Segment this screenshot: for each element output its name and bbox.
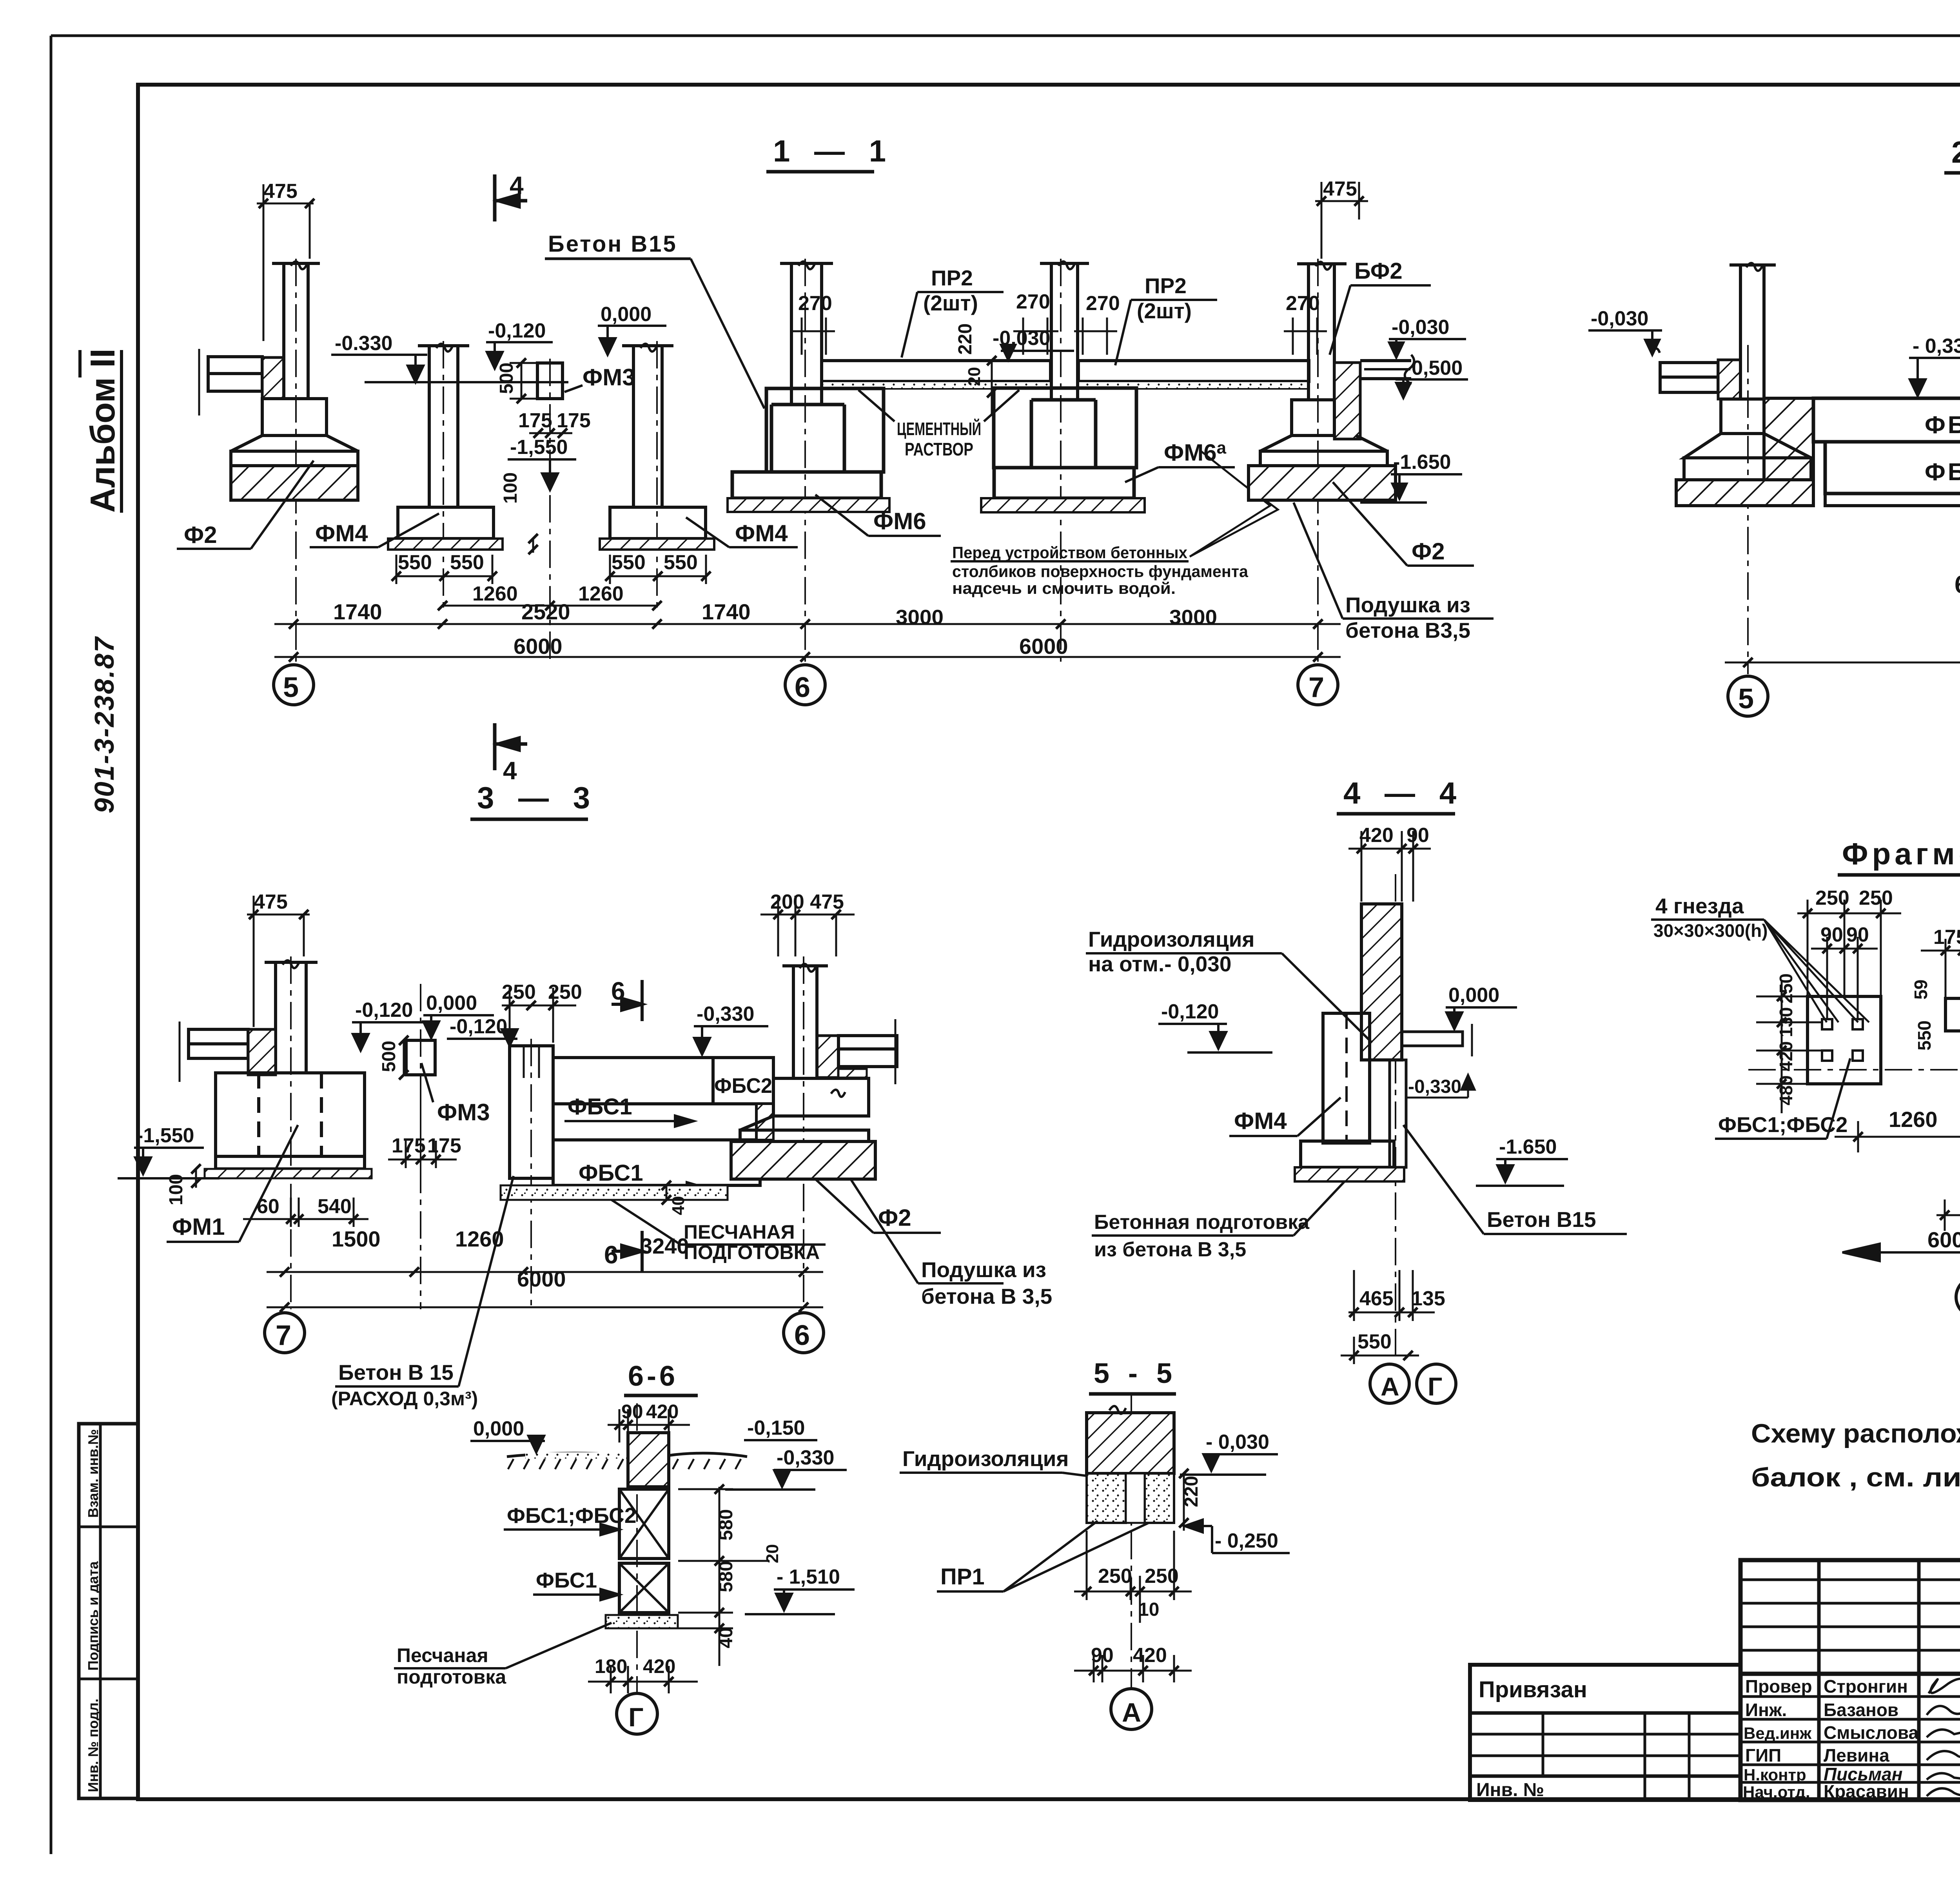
svg-text:59: 59 <box>1911 980 1931 1000</box>
circles A G 4-4 <box>1370 1364 1456 1403</box>
svg-text:270: 270 <box>1016 290 1050 313</box>
svg-text:Подпись и дата: Подпись и дата <box>85 1561 101 1671</box>
pad FM4 #1 <box>388 539 503 550</box>
svg-text:А: А <box>1122 1698 1141 1727</box>
hatched pad F2 axis7 <box>1249 466 1396 500</box>
svg-text:(2шт): (2шт) <box>1137 299 1192 323</box>
pad FM6a <box>981 498 1145 512</box>
svg-text:Провер: Провер <box>1745 1676 1812 1697</box>
svg-text:270: 270 <box>1086 292 1120 315</box>
pad FM6 <box>728 498 889 512</box>
svg-text:550: 550 <box>398 551 432 574</box>
foundation FM6a <box>994 388 1136 498</box>
thin hatch under slab 3-3 <box>838 1069 867 1078</box>
wall lower strip <box>1390 1060 1406 1167</box>
svg-text:270: 270 <box>798 292 832 315</box>
svg-text:1500: 1500 <box>332 1227 381 1251</box>
svg-text:7: 7 <box>1308 672 1324 703</box>
svg-text:ФМ4: ФМ4 <box>315 520 368 546</box>
svg-text:Подушка из: Подушка из <box>921 1257 1046 1282</box>
left foundation trapezoid <box>1684 399 1811 458</box>
beam stub right of axis7 <box>1360 355 1414 385</box>
svg-text:ПЕСЧАНАЯ: ПЕСЧАНАЯ <box>684 1221 795 1243</box>
svg-text:Вед.инж: Вед.инж <box>1744 1724 1812 1742</box>
svg-text:0,000: 0,000 <box>426 992 477 1014</box>
column FM6a axis <box>1040 261 1089 400</box>
svg-text:6000: 6000 <box>514 634 563 659</box>
foundation 4-4 <box>1301 1141 1394 1167</box>
FBS block 2 with X <box>619 1563 669 1613</box>
svg-text:6: 6 <box>604 1241 618 1269</box>
right floor slab 3-3 <box>838 1019 897 1084</box>
svg-text:Стронгин: Стронгин <box>1824 1676 1908 1697</box>
foundation FM4 #1 <box>398 507 494 539</box>
FBS1 row1 <box>553 1058 713 1104</box>
bottom thin slab <box>1825 494 1960 506</box>
grid circles 7 6 <box>265 1313 824 1353</box>
FBS block 1 with X <box>619 1489 669 1559</box>
svg-text:ФБС2: ФБС2 <box>714 1074 772 1098</box>
svg-text:420: 420 <box>646 1401 679 1423</box>
svg-text:-1.650: -1.650 <box>1393 451 1451 474</box>
hatched pad F2 axis5 <box>231 466 358 500</box>
svg-text:500: 500 <box>496 363 517 394</box>
svg-text:-0,030: -0,030 <box>1392 316 1449 339</box>
hatched wall bit 3-3 left <box>248 1029 276 1075</box>
hatched wall bit left <box>1718 360 1740 399</box>
svg-text:475: 475 <box>1323 178 1357 200</box>
svg-text:-0,330: -0,330 <box>777 1446 834 1469</box>
svg-text:ФМ6: ФМ6 <box>873 508 926 534</box>
svg-text:1740: 1740 <box>333 599 382 624</box>
base slab hatched 4-4 <box>1295 1167 1404 1181</box>
svg-text:бетона В3,5: бетона В3,5 <box>1345 618 1470 642</box>
svg-text:40: 40 <box>669 1196 688 1215</box>
svg-text:2520: 2520 <box>521 599 570 624</box>
svg-text:Ф2: Ф2 <box>878 1205 911 1231</box>
grid circles 5 6 7 <box>274 665 1338 705</box>
svg-text:Левина: Левина <box>1824 1745 1889 1766</box>
svg-text:ЦЕМЕНТНЫЙ: ЦЕМЕНТНЫЙ <box>897 419 981 439</box>
svg-text:250: 250 <box>1098 1565 1132 1588</box>
svg-text:5: 5 <box>283 672 299 703</box>
svg-text:-0.330: -0.330 <box>335 332 392 355</box>
svg-text:ПР1: ПР1 <box>940 1564 985 1590</box>
FBS2 row1 <box>713 1058 773 1104</box>
svg-text:Песчаная: Песчаная <box>397 1644 488 1666</box>
svg-text:3 — 3: 3 — 3 <box>477 780 598 815</box>
svg-text:Инв. № подл.: Инв. № подл. <box>85 1698 101 1792</box>
svg-text:475: 475 <box>254 891 288 913</box>
svg-text:Н.контр: Н.контр <box>1744 1766 1806 1784</box>
svg-text:-0,330: -0,330 <box>697 1003 754 1025</box>
svg-text:10: 10 <box>1138 1599 1159 1620</box>
svg-text:135: 135 <box>1411 1287 1445 1310</box>
svg-text:-1,550: -1,550 <box>136 1124 194 1147</box>
svg-text:столбиков поверхность фундамен: столбиков поверхность фундамента <box>952 562 1249 581</box>
svg-text:420: 420 <box>1359 824 1394 847</box>
svg-text:3000: 3000 <box>1169 606 1217 629</box>
column FM4 4-4 <box>1323 1013 1370 1143</box>
big block FM1 <box>216 1073 365 1169</box>
foundation FM6 <box>732 388 884 498</box>
beam strip PR2 left span <box>822 361 1309 381</box>
column axis7 <box>1297 262 1347 401</box>
svg-text:Бетон В 15: Бетон В 15 <box>338 1360 454 1384</box>
svg-text:Подушка из: Подушка из <box>1345 593 1470 617</box>
svg-text:Привязан: Привязан <box>1479 1677 1587 1702</box>
ground line <box>507 1453 747 1469</box>
trapezoid foundation F2 3-3 <box>740 1078 869 1141</box>
svg-text:Гидроизоляция: Гидроизоляция <box>1088 927 1254 951</box>
svg-text:0,000: 0,000 <box>473 1417 524 1440</box>
svg-text:540: 540 <box>318 1195 352 1218</box>
svg-text:1260: 1260 <box>472 582 518 605</box>
svg-text:-0,120: -0,120 <box>488 319 546 342</box>
sidebar doc number <box>89 636 120 813</box>
circles 6 7 plan <box>1956 1231 1960 1317</box>
svg-text:- 1,510: - 1,510 <box>777 1566 840 1588</box>
svg-text:901-3-238.87: 901-3-238.87 <box>89 636 120 813</box>
hatched wall 4-4 <box>1361 904 1402 1060</box>
svg-text:1740: 1740 <box>702 599 751 624</box>
svg-text:Ф2: Ф2 <box>184 522 217 548</box>
svg-text:-0,330: -0,330 <box>1408 1076 1461 1097</box>
mortar band with joint <box>1087 1473 1174 1523</box>
hatched pad F2 3-3 <box>731 1141 875 1179</box>
svg-text:250: 250 <box>502 981 536 1003</box>
svg-text:5 - 5: 5 - 5 <box>1094 1358 1178 1389</box>
svg-text:ПР2: ПР2 <box>931 266 973 290</box>
small pier near foundation 3-3 <box>757 1104 773 1140</box>
svg-text:550: 550 <box>664 551 698 574</box>
svg-text:580: 580 <box>716 1561 737 1592</box>
svg-text:БФ2: БФ2 <box>1354 258 1403 284</box>
axis G horizontal <box>1748 1069 1960 1071</box>
axis dash-dot lines <box>296 259 1318 662</box>
svg-text:-1.650: -1.650 <box>1499 1136 1557 1158</box>
svg-text:Перед устройством бетонных: Перед устройством бетонных <box>952 543 1188 562</box>
svg-text:6: 6 <box>794 1320 810 1351</box>
svg-text:7: 7 <box>276 1320 291 1351</box>
svg-text:175: 175 <box>518 409 552 432</box>
left rotated dims wall plan <box>1776 973 1796 1105</box>
outer border top <box>51 34 1960 37</box>
svg-text:Схему расположения фундамент: Схему расположения фундаментов, фундамен… <box>1751 1419 1960 1448</box>
svg-text:-0,030: -0,030 <box>1591 307 1648 330</box>
hatched pier right 3-3 <box>817 1036 838 1078</box>
sand strip 6-6 <box>606 1615 678 1628</box>
grid circles 5 4 <box>1728 676 1960 716</box>
pad FM4 #2 <box>600 539 714 550</box>
svg-text:- 0,250: - 0,250 <box>1215 1530 1278 1552</box>
svg-text:РАСТВОР: РАСТВОР <box>905 439 973 459</box>
svg-text:(РАСХОД 0,3м³): (РАСХОД 0,3м³) <box>331 1388 478 1410</box>
svg-text:465: 465 <box>1359 1287 1394 1310</box>
pier FM3 3-3 <box>406 1040 435 1075</box>
svg-text:Красавин: Красавин <box>1824 1781 1909 1802</box>
svg-text:ФМ1: ФМ1 <box>172 1214 225 1240</box>
svg-text:Г: Г <box>1428 1372 1442 1401</box>
thin pad FM1 <box>205 1169 372 1178</box>
svg-text:Бетонная подготовка: Бетонная подготовка <box>1094 1211 1310 1234</box>
svg-text:20: 20 <box>763 1544 782 1563</box>
ground dotted soil <box>525 1452 628 1459</box>
svg-text:(2шт): (2шт) <box>923 291 978 315</box>
svg-text:40: 40 <box>716 1628 737 1648</box>
hatched wall block at axis5 <box>262 357 284 399</box>
FBS row 1 <box>1813 398 1960 442</box>
cut mark 4 top <box>495 174 527 221</box>
svg-text:175: 175 <box>557 409 591 432</box>
svg-text:6000: 6000 <box>1019 634 1068 659</box>
svg-text:-0,150: -0,150 <box>747 1417 805 1439</box>
foundation F2 axis5 <box>231 399 358 466</box>
svg-text:- 0,030: - 0,030 <box>1206 1431 1269 1453</box>
svg-text:-0,120: -0,120 <box>355 999 413 1022</box>
svg-text:550: 550 <box>1357 1330 1392 1353</box>
hatched beam BF2 at axis7 <box>1334 363 1360 439</box>
svg-text:Бетон В15: Бетон В15 <box>1487 1207 1596 1232</box>
svg-text:3240: 3240 <box>640 1234 689 1258</box>
svg-text:ФБС1: ФБС1 <box>579 1160 643 1186</box>
secondary table <box>1470 1665 1740 1800</box>
svg-text:1260: 1260 <box>578 582 624 605</box>
svg-text:А: А <box>1381 1372 1399 1401</box>
hatched block 5-5 <box>1087 1413 1174 1473</box>
svg-text:Взам. инв.№: Взам. инв.№ <box>85 1429 101 1518</box>
svg-text:1260: 1260 <box>1889 1107 1938 1132</box>
svg-text:надсечь и смочить водой.: надсечь и смочить водой. <box>952 579 1176 597</box>
svg-text:ФМ3: ФМ3 <box>583 364 635 390</box>
svg-text:балок , см. лист. КЖ 20.: балок , см. лист. КЖ 20. <box>1751 1463 1960 1492</box>
svg-text:420: 420 <box>1133 1644 1167 1667</box>
cut mark 4 bottom <box>495 723 527 770</box>
svg-text:Фрагмент плана N1: Фрагмент плана N1 <box>1842 836 1960 871</box>
circle G 6-6 <box>617 1693 657 1734</box>
sidebar album text <box>80 348 122 513</box>
svg-text:3000: 3000 <box>896 606 944 629</box>
svg-text:бетона В 3,5: бетона В 3,5 <box>921 1284 1052 1308</box>
axis dash-dot 4-4 <box>1395 874 1396 1356</box>
svg-text:Инж.: Инж. <box>1745 1700 1787 1720</box>
svg-text:20: 20 <box>965 367 984 386</box>
svg-text:Инв. №: Инв. № <box>1476 1780 1544 1800</box>
svg-text:6: 6 <box>795 672 810 703</box>
svg-text:4 гнезда: 4 гнезда <box>1655 894 1744 918</box>
axis dash-dot <box>291 956 804 1309</box>
svg-text:-1,550: -1,550 <box>510 436 568 459</box>
main title block grid <box>1740 1560 1960 1800</box>
FBS1 row2 <box>553 1140 760 1185</box>
svg-text:-0,120: -0,120 <box>1161 1000 1219 1023</box>
svg-text:270: 270 <box>1286 292 1320 315</box>
mortar layer under beams <box>822 381 1051 389</box>
foundation F2 axis7 <box>1260 400 1387 466</box>
FBS middle ledge <box>553 1104 757 1140</box>
column FM6 axis6 <box>780 261 833 405</box>
svg-text:100: 100 <box>166 1174 187 1205</box>
circle A 5-5 <box>1111 1689 1152 1729</box>
svg-text:90: 90 <box>1406 824 1429 847</box>
wall plan rect FBS <box>1808 996 1881 1084</box>
svg-text:ФМ4: ФМ4 <box>735 520 788 546</box>
svg-text:4: 4 <box>510 171 524 200</box>
svg-text:Гидроизоляция: Гидроизоляция <box>902 1446 1069 1471</box>
svg-text:0,000: 0,000 <box>1448 984 1499 1007</box>
svg-text:1 — 1: 1 — 1 <box>773 134 894 168</box>
svg-text:100: 100 <box>500 472 521 504</box>
axis vertical 5-5 <box>1131 1395 1132 1689</box>
svg-text:6000: 6000 <box>517 1267 566 1291</box>
svg-text:175: 175 <box>427 1134 461 1157</box>
svg-text:ФМ4: ФМ4 <box>1234 1108 1287 1134</box>
svg-text:-0,120: -0,120 <box>450 1015 507 1038</box>
right column 3-3 <box>782 964 828 1078</box>
column FM4 #1 <box>418 344 469 507</box>
sockets 4 squares <box>1822 1019 1863 1061</box>
axis dash-dot <box>1748 259 1960 674</box>
foundation FM4 #2 <box>610 507 706 539</box>
svg-text:175: 175 <box>1933 926 1960 949</box>
column axis5 of 2-2 <box>1730 263 1776 399</box>
left hatched pier <box>1764 398 1813 494</box>
svg-text:6-6: 6-6 <box>628 1361 678 1392</box>
svg-text:550: 550 <box>612 551 646 574</box>
svg-text:Ф2: Ф2 <box>1412 538 1445 564</box>
column axis5 <box>272 261 320 399</box>
left base pad hatched <box>1676 480 1813 506</box>
svg-text:на отм.- 0,030: на отм.- 0,030 <box>1088 952 1231 976</box>
svg-text:90: 90 <box>1820 924 1843 946</box>
svg-text:ФБС1: ФБС1 <box>536 1568 597 1592</box>
svg-text:0,500: 0,500 <box>1412 357 1463 379</box>
svg-text:6: 6 <box>1955 570 1960 599</box>
svg-text:550: 550 <box>450 551 484 574</box>
svg-text:ФБС1: ФБС1 <box>568 1094 632 1120</box>
svg-text:Бетон В15: Бетон В15 <box>548 231 677 257</box>
outer border left <box>50 36 53 1854</box>
svg-text:Смыслова: Смыслова <box>1824 1722 1919 1743</box>
axis vertical 6-6 <box>636 1403 638 1693</box>
svg-text:420: 420 <box>643 1655 675 1677</box>
floor slab 4-4 <box>1402 1024 1472 1056</box>
left floor slab 3-3 <box>180 1022 248 1082</box>
FBS row 2 <box>1825 442 1960 494</box>
svg-text:Г: Г <box>628 1702 644 1732</box>
svg-text:6000: 6000 <box>1927 1227 1960 1252</box>
svg-text:Базанов: Базанов <box>1824 1700 1898 1720</box>
title block texts <box>1743 1676 1919 1802</box>
column FM4 #2 <box>622 344 673 507</box>
hatched wall 6-6 <box>628 1433 669 1487</box>
FM3 square plan <box>1945 998 1960 1031</box>
svg-text:ФБС 1;2: ФБС 1;2 <box>1925 459 1960 486</box>
svg-text:4 — 4: 4 — 4 <box>1343 776 1464 810</box>
svg-text:220: 220 <box>955 323 976 355</box>
svg-text:ФБС1;ФБС2: ФБС1;ФБС2 <box>507 1503 636 1528</box>
bottom-left stamp column <box>79 1424 138 1798</box>
svg-text:Альбом II: Альбом II <box>83 348 122 513</box>
svg-text:Нач.отд.: Нач.отд. <box>1743 1783 1810 1801</box>
svg-text:500: 500 <box>379 1041 399 1072</box>
svg-text:из бетона В 3,5: из бетона В 3,5 <box>1094 1238 1246 1261</box>
svg-text:250: 250 <box>1859 887 1893 909</box>
svg-text:ГИП: ГИП <box>1745 1745 1781 1766</box>
small pier FM3 <box>537 363 563 399</box>
sand layer under FBS <box>501 1185 728 1200</box>
svg-text:30×30×300(h): 30×30×300(h) <box>1653 920 1768 941</box>
svg-text:60: 60 <box>257 1195 279 1218</box>
svg-text:5: 5 <box>1738 683 1754 715</box>
signatures squiggles <box>1927 1679 1960 1800</box>
svg-text:550: 550 <box>1914 1020 1935 1051</box>
svg-text:ФМ3: ФМ3 <box>437 1099 490 1125</box>
svg-text:ПР2: ПР2 <box>1145 274 1187 298</box>
svg-text:90: 90 <box>621 1401 643 1423</box>
svg-text:0,000: 0,000 <box>601 303 652 326</box>
floor slab left <box>199 349 262 416</box>
svg-text:2 — 2: 2 — 2 <box>1951 135 1960 169</box>
svg-text:- 0,330: - 0,330 <box>1913 335 1960 357</box>
FBS wall vertical <box>510 1046 553 1178</box>
left column FM1 <box>265 960 318 1073</box>
svg-text:ФБС 1;2: ФБС 1;2 <box>1925 412 1960 439</box>
left floor slab <box>1651 348 1718 392</box>
